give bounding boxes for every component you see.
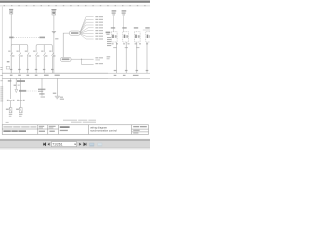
wire [146, 42, 148, 73]
fan wires to labels [80, 17, 94, 39]
svg-text:71/261: 71/261 [52, 143, 62, 147]
bus line 31 [2, 77, 108, 79]
wire [53, 15, 55, 31]
relay K3 box [134, 32, 140, 42]
X2 text [62, 58, 70, 60]
relay K3 coil [135, 35, 137, 38]
valve Y1 box [9, 108, 12, 113]
wire [10, 14, 12, 73]
label X5 [8, 80, 12, 81]
label A05M bold [17, 80, 25, 82]
horn inline label [19, 90, 26, 92]
x42 end label [41, 96, 45, 97]
left edge wire list [0, 75, 2, 76]
wire from X1 left [63, 33, 69, 57]
switch contact S5 [44, 53, 46, 56]
wire from X2 [71, 59, 94, 64]
nav next button [79, 143, 81, 146]
connector arrow X0 [52, 31, 57, 34]
label F1 value [9, 9, 13, 10]
text smudges: component labels [0, 9, 149, 117]
wire below bus x57.3 [56, 78, 58, 96]
ground G1 [55, 96, 60, 99]
fuse F2 [52, 11, 56, 15]
wire labels between bus lines [10, 75, 13, 76]
wire below bus x20.7 [20, 78, 22, 107]
wire [116, 42, 118, 73]
fan labels column [95, 16, 98, 17]
wire labels above bus [10, 69, 12, 70]
top window bar [0, 0, 150, 2]
bus hat 2 [36, 45, 52, 53]
wire [35, 56, 37, 73]
bottom toolbar [0, 138, 150, 141]
relay K2 box [123, 32, 129, 42]
K38 label stack [122, 10, 127, 11]
valve labels [6, 109, 9, 110]
wire riser [19, 45, 21, 53]
x42 label [39, 93, 44, 94]
switch contact S3 [27, 53, 29, 56]
switch contact S6 [52, 53, 54, 56]
wire riser [43, 45, 45, 53]
pin tick x10.5 [9, 100, 12, 102]
wire [125, 42, 127, 73]
wire [51, 56, 53, 73]
switch contact S2 [19, 53, 21, 56]
wire top link [143, 29, 150, 31]
switch row labels upper [8, 51, 10, 52]
bus line 30 [2, 72, 108, 74]
pin tick x20.7 [19, 100, 22, 102]
wire below tick x10.5 [10, 101, 12, 108]
wire [10, 56, 12, 73]
svg-text:synchronization control: synchronization control [90, 129, 117, 133]
page left border [1, 7, 3, 125]
toolbar icon 2 [97, 143, 102, 147]
toolbar icon 1 [89, 143, 94, 147]
wire below bus x16.2 [15, 78, 17, 89]
relay under labels row2 [113, 47, 116, 48]
ground wire label [53, 93, 56, 94]
title block [2, 125, 148, 135]
left margin label 30 [7, 61, 10, 62]
wire [19, 56, 21, 73]
horn right label [38, 89, 45, 91]
valve Y2 box [19, 108, 22, 113]
relay pin labels [112, 43, 114, 44]
relay top labels [111, 27, 115, 28]
label S right [39, 37, 45, 39]
X2 fan labels [95, 57, 98, 58]
wire below bus x42 [41, 78, 43, 95]
relay K1 coil [112, 35, 114, 38]
switch row labels lower [12, 55, 14, 56]
relay K1 box [111, 32, 117, 42]
connector box X1 [70, 31, 80, 35]
left edge labels upper [0, 67, 2, 68]
left terminal list [107, 37, 111, 38]
relay feed wire K38 [123, 16, 125, 32]
wire [53, 34, 55, 73]
label near x54 top [55, 38, 58, 39]
title block texts [3, 126, 146, 134]
label stack mid-right [107, 56, 111, 57]
connector box X2 [61, 57, 71, 61]
nav prev button [48, 143, 50, 146]
nav last-page button [84, 143, 86, 146]
note text above title block [63, 120, 77, 121]
relay K4 box [146, 32, 152, 42]
relay K2 coil [124, 35, 126, 38]
K11 label stack [112, 10, 117, 11]
label S left [9, 37, 13, 39]
left margin connector box [6, 66, 9, 69]
page number input box [51, 142, 76, 147]
below bus small labels left wires [14, 85, 17, 86]
pin labels around ticks [7, 100, 9, 101]
switch contact S1 [11, 53, 13, 56]
relay K4 coil [147, 35, 149, 38]
bus hat 1 [11, 45, 28, 53]
fuse F1 [10, 11, 13, 14]
nav first-page button [43, 143, 45, 146]
wire dashed to label [27, 90, 37, 92]
relay feed wire K11 [113, 16, 115, 32]
X1 text [71, 32, 78, 34]
switch contact S4 [35, 53, 37, 56]
dashed link S line [14, 37, 41, 39]
dropdown arrow [74, 144, 76, 145]
label F2 value [51, 9, 56, 10]
junction [81, 59, 82, 60]
wire [27, 56, 29, 73]
horn symbol B1 [15, 89, 18, 92]
page top ruler band [0, 5, 150, 7]
wire [43, 56, 45, 73]
wire [136, 42, 138, 73]
wire below bus x10.5 [10, 78, 12, 99]
label A06 [106, 32, 111, 34]
